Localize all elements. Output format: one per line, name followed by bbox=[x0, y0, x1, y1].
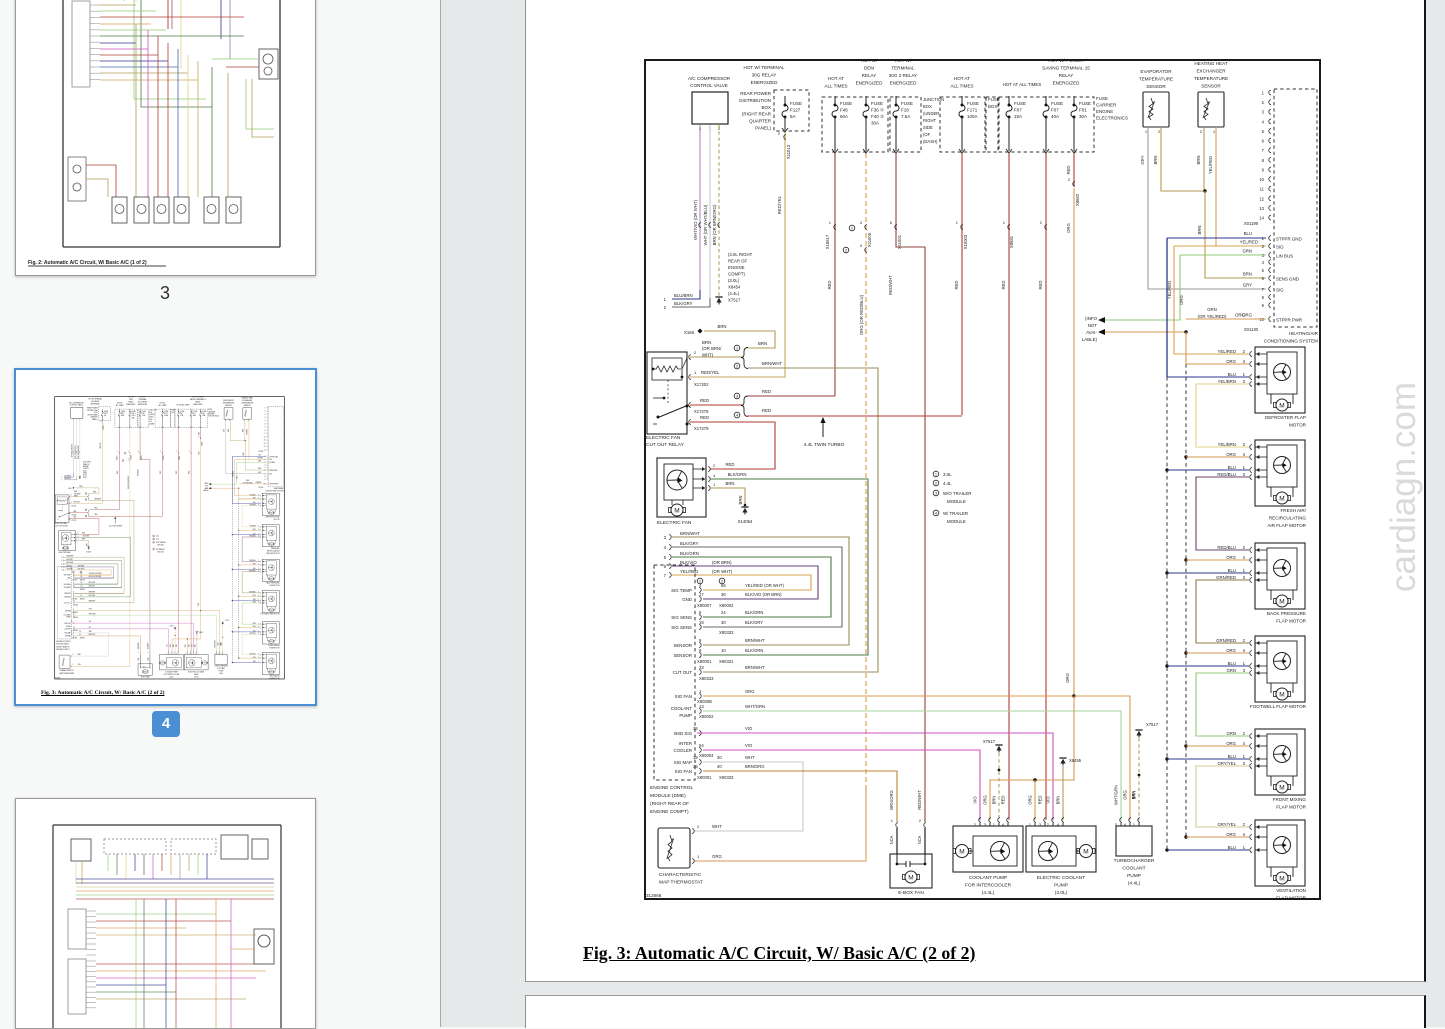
svg-text:(3.0L): (3.0L) bbox=[728, 278, 740, 283]
svg-text:FUSE: FUSE bbox=[840, 101, 852, 106]
svg-text:X8682: X8682 bbox=[1075, 193, 1080, 206]
rear power distribution box (dashed) with fuse F127 bbox=[774, 90, 809, 131]
svg-text:2: 2 bbox=[664, 305, 667, 310]
sidebar selected page badge 4 bbox=[152, 711, 180, 737]
svg-text:SIG MAP: SIG MAP bbox=[674, 760, 692, 765]
ECM row annotations bbox=[697, 578, 703, 584]
wire BLU stub to fresh air flap motor pin 1 bbox=[1165, 468, 1168, 471]
svg-text:2: 2 bbox=[1243, 545, 1246, 550]
svg-text:M: M bbox=[1279, 691, 1284, 698]
svg-text:GND: GND bbox=[682, 597, 692, 602]
svg-text:BRN: BRN bbox=[758, 341, 767, 346]
svg-text:ENGINE: ENGINE bbox=[1096, 109, 1113, 114]
svg-text:VIO: VIO bbox=[745, 726, 753, 731]
svg-text:BLU: BLU bbox=[1228, 754, 1236, 759]
svg-text:RED: RED bbox=[1001, 796, 1006, 805]
svg-text:W/ TRAILER: W/ TRAILER bbox=[943, 511, 968, 516]
svg-text:RED: RED bbox=[827, 280, 832, 289]
svg-text:SIG FAN: SIG FAN bbox=[675, 769, 692, 774]
ground X7517 for intercooler pump BRN bbox=[995, 744, 1002, 746]
svg-text:BLK/GRY: BLK/GRY bbox=[745, 620, 763, 625]
svg-text:ENGINE CONTROL: ENGINE CONTROL bbox=[650, 785, 694, 791]
schematic outer border frame bbox=[645, 60, 1320, 899]
svg-text:36: 36 bbox=[721, 592, 726, 597]
svg-text:BRN: BRN bbox=[725, 481, 734, 486]
svg-text:2: 2 bbox=[778, 131, 781, 136]
svg-text:SIG: SIG bbox=[1276, 287, 1284, 292]
svg-text:WHT/VIO (OR WHT): WHT/VIO (OR WHT) bbox=[693, 200, 698, 240]
wire BLU rail bbox=[1166, 238, 1168, 377]
svg-text:VENTILATION: VENTILATION bbox=[1276, 888, 1306, 893]
svg-text:BLU: BLU bbox=[1228, 465, 1236, 470]
svg-text:11: 11 bbox=[1260, 187, 1265, 192]
svg-text:SIG TEMP: SIG TEMP bbox=[671, 588, 692, 593]
intercooler pump connector pins bbox=[979, 818, 981, 823]
relay coil pin 2 split bbox=[690, 356, 743, 358]
svg-text:56: 56 bbox=[721, 583, 726, 588]
svg-text:2: 2 bbox=[1068, 177, 1071, 182]
svg-text:HOT W/: HOT W/ bbox=[895, 58, 912, 63]
svg-text:RED: RED bbox=[1066, 165, 1071, 174]
svg-text:ORG: ORG bbox=[1226, 359, 1236, 364]
svg-text:SENSOR: SENSOR bbox=[1201, 84, 1221, 89]
svg-text:ORG: ORG bbox=[1226, 741, 1236, 746]
svg-text:BLK/VIO (OR BRN): BLK/VIO (OR BRN) bbox=[745, 592, 782, 597]
A/C compressor control valve bbox=[692, 92, 728, 124]
svg-text:FUSE: FUSE bbox=[1014, 101, 1026, 106]
svg-text:2: 2 bbox=[1262, 100, 1265, 105]
svg-text:2: 2 bbox=[713, 463, 716, 468]
svg-text:30G RELAY: 30G RELAY bbox=[752, 73, 777, 78]
svg-text:1: 1 bbox=[1003, 220, 1006, 225]
svg-text:FUSE: FUSE bbox=[871, 101, 883, 106]
node row 2 BLK/GRY bbox=[672, 298, 710, 307]
svg-text:X80007: X80007 bbox=[697, 603, 712, 608]
svg-text:3: 3 bbox=[1243, 575, 1246, 580]
svg-text:4.4L: 4.4L bbox=[943, 481, 952, 486]
svg-text:2: 2 bbox=[919, 818, 922, 823]
fuse box: hot at all times / DEM relay (dashed) bbox=[822, 97, 888, 152]
svg-text:HOT AT: HOT AT bbox=[828, 76, 844, 81]
wire GRN (OR YEL/RED) LIN bus to pin 3 bbox=[1180, 254, 1266, 256]
wire ORG junction to pumps and turbo pump bbox=[1072, 694, 1075, 697]
svg-text:TURBOCHARGER: TURBOCHARGER bbox=[1114, 858, 1155, 864]
svg-text:RED/YEL: RED/YEL bbox=[701, 370, 720, 375]
svg-text:BRN/WHT: BRN/WHT bbox=[680, 531, 700, 536]
svg-text:7.5A: 7.5A bbox=[901, 114, 910, 119]
svg-text:7: 7 bbox=[664, 573, 667, 578]
svg-text:3: 3 bbox=[1243, 472, 1246, 477]
svg-text:ORG: ORG bbox=[1066, 222, 1071, 232]
wire BRN from X166 to relay coil bbox=[704, 331, 775, 348]
svg-text:ENERGIZED: ENERGIZED bbox=[751, 80, 778, 85]
wire ORG stub to fresh air flap motor pin 4 bbox=[1184, 455, 1187, 458]
svg-text:WHT/GRN: WHT/GRN bbox=[745, 704, 765, 709]
svg-text:BRN: BRN bbox=[992, 796, 997, 805]
ground X14054 bbox=[744, 504, 747, 507]
svg-text:COOLER: COOLER bbox=[673, 748, 692, 753]
svg-text:RED: RED bbox=[700, 415, 709, 420]
wire BRN/ORG ECM sig fan to e-box fan pin 1 bbox=[703, 771, 897, 822]
svg-text:INTER: INTER bbox=[679, 741, 692, 746]
svg-text:X01130: X01130 bbox=[1244, 327, 1259, 332]
option legend bbox=[933, 471, 939, 477]
svg-text:ELECTRIC FAN: ELECTRIC FAN bbox=[646, 435, 681, 441]
svg-text:X14054: X14054 bbox=[738, 519, 753, 524]
svg-text:(RIGHT REAR OF: (RIGHT REAR OF bbox=[650, 801, 689, 807]
svg-text:BLK/GRN: BLK/GRN bbox=[728, 472, 747, 477]
svg-text:SIG: SIG bbox=[1276, 244, 1284, 249]
svg-text:X8681: X8681 bbox=[1009, 235, 1014, 248]
svg-text:9: 9 bbox=[1262, 303, 1265, 308]
wire GRY from evaporator sensor to pin 7 SIG bbox=[1148, 127, 1266, 289]
svg-text:M: M bbox=[959, 848, 964, 855]
svg-text:33: 33 bbox=[699, 665, 704, 670]
wire GRN from previous flap motor pin 3 to pin 2 bbox=[1196, 673, 1249, 736]
svg-text:GRY/YEL: GRY/YEL bbox=[1217, 761, 1236, 766]
svg-text:BRN: BRN bbox=[1243, 272, 1252, 277]
svg-text:GRY/YEL: GRY/YEL bbox=[1217, 822, 1236, 827]
svg-text:YEL/BRN: YEL/BRN bbox=[1218, 379, 1236, 384]
svg-text:BLK/GRN: BLK/GRN bbox=[745, 648, 763, 653]
fuse box sliver (dashed) bbox=[986, 97, 998, 152]
svg-text:2: 2 bbox=[1040, 220, 1043, 225]
svg-text:FUSE: FUSE bbox=[1096, 96, 1108, 101]
svg-text:ORG: ORG bbox=[745, 689, 755, 694]
svg-text:BLU: BLU bbox=[1228, 661, 1236, 666]
svg-text:X8455: X8455 bbox=[1069, 758, 1082, 763]
svg-text:BLK/GRY: BLK/GRY bbox=[680, 541, 699, 546]
wire RED from fuse F171 down to RED(4) row bbox=[961, 153, 963, 415]
svg-text:WHT: WHT bbox=[712, 824, 722, 829]
svg-text:FOOTWELL FLAP MOTOR: FOOTWELL FLAP MOTOR bbox=[1250, 704, 1307, 709]
svg-text:FLAP MOTOR: FLAP MOTOR bbox=[1276, 896, 1306, 901]
svg-text:4: 4 bbox=[1262, 260, 1265, 265]
sidebar: thumbnail page 4 (selected, mini copy of main diagram) bbox=[14, 368, 317, 706]
svg-text:4: 4 bbox=[1243, 452, 1246, 457]
svg-text:Fig. 2: Automatic A/C Circuit,: Fig. 2: Automatic A/C Circuit, W/ Basic … bbox=[28, 260, 147, 266]
svg-text:6: 6 bbox=[699, 610, 702, 615]
svg-text:RED: RED bbox=[725, 462, 734, 467]
wire VIO ECM bsd sig to electric coolant pump pin 2 bbox=[697, 733, 1053, 820]
e-box fan connector NCA pins bbox=[896, 823, 898, 828]
svg-text:5A: 5A bbox=[790, 114, 796, 119]
svg-text:BRN/ORG: BRN/ORG bbox=[889, 790, 894, 810]
svg-text:35: 35 bbox=[693, 726, 698, 731]
svg-text:3: 3 bbox=[1243, 761, 1246, 766]
svg-text:BLK/GRN: BLK/GRN bbox=[745, 610, 763, 615]
svg-text:GRN/RED: GRN/RED bbox=[1216, 638, 1236, 643]
svg-text:(INFO: (INFO bbox=[1085, 316, 1098, 321]
svg-text:ORG: ORG bbox=[1123, 790, 1128, 800]
svg-text:9: 9 bbox=[699, 638, 702, 643]
svg-text:RIGHT: RIGHT bbox=[923, 118, 936, 123]
svg-text:3.0L: 3.0L bbox=[943, 472, 952, 477]
wire RED from fuse F07 40A to electric coolant pump pin 3 bbox=[1045, 153, 1047, 820]
wire BRN from electric fan pin 1 to ground X14054 bbox=[710, 488, 745, 505]
svg-text:NOT: NOT bbox=[1088, 323, 1098, 328]
svg-text:HEATING/AIR: HEATING/AIR bbox=[1289, 331, 1319, 336]
svg-text:GRY: GRY bbox=[1140, 155, 1145, 164]
svg-text:LIN BUS: LIN BUS bbox=[1276, 253, 1293, 258]
svg-text:NCA: NCA bbox=[917, 835, 922, 844]
wire WHT ECM sig map loop to thermostat pin 2 bbox=[694, 762, 803, 831]
svg-text:X80333: X80333 bbox=[719, 775, 734, 780]
svg-text:2: 2 bbox=[1158, 129, 1161, 134]
svg-text:1: 1 bbox=[697, 854, 700, 859]
svg-text:X80002: X80002 bbox=[719, 603, 734, 608]
svg-text:STPPR GND: STPPR GND bbox=[1276, 236, 1302, 241]
svg-text:ELECTRONICS: ELECTRONICS bbox=[1096, 116, 1128, 121]
svg-text:TEMPERATURE: TEMPERATURE bbox=[1139, 77, 1173, 82]
svg-text:100A: 100A bbox=[967, 114, 978, 119]
wire BLK/GRN ECM sig sens loop bbox=[703, 616, 831, 618]
svg-text:X80331: X80331 bbox=[719, 659, 734, 664]
svg-text:FUSE: FUSE bbox=[1051, 101, 1063, 106]
svg-text:312666: 312666 bbox=[646, 893, 662, 898]
svg-text:YEL/RED: YEL/RED bbox=[1240, 240, 1258, 245]
svg-text:FUSE: FUSE bbox=[790, 101, 802, 106]
svg-text:3: 3 bbox=[1262, 110, 1265, 115]
svg-text:1: 1 bbox=[1243, 661, 1246, 666]
svg-text:RED: RED bbox=[1001, 280, 1006, 289]
svg-text:30: 30 bbox=[721, 620, 726, 625]
svg-text:BRN/WHT: BRN/WHT bbox=[745, 638, 765, 643]
svg-text:SIG SENS: SIG SENS bbox=[671, 625, 692, 630]
svg-text:YEL/RED: YEL/RED bbox=[1218, 349, 1236, 354]
svg-text:2: 2 bbox=[1243, 822, 1246, 827]
wire BRN/WHT ECM sensor loop bbox=[703, 644, 849, 646]
svg-text:FLAP MOTOR: FLAP MOTOR bbox=[1276, 805, 1306, 810]
svg-text:NCA: NCA bbox=[889, 835, 894, 844]
wire ORG stub to front mixing flap motor pin 4 bbox=[1184, 744, 1187, 747]
sidebar: thumbnail page 5 (partial, top of next figure) bbox=[15, 798, 316, 1029]
svg-text:BLU: BLU bbox=[1228, 568, 1236, 573]
svg-text:DISTRIBUTION: DISTRIBUTION bbox=[739, 98, 771, 103]
dashed continuation of ORG rail bbox=[1185, 364, 1187, 839]
wire YEL/BRN from previous flap motor pin 3 to pin 2 bbox=[1196, 384, 1249, 447]
svg-text:RELAY: RELAY bbox=[862, 73, 877, 78]
svg-text:F07: F07 bbox=[1051, 108, 1059, 113]
svg-text:M: M bbox=[908, 874, 913, 881]
svg-text:M: M bbox=[674, 507, 679, 514]
svg-text:3: 3 bbox=[860, 243, 863, 248]
flap motor: defroster bbox=[1218, 347, 1307, 428]
svg-text:RED: RED bbox=[1038, 280, 1043, 289]
svg-text:6: 6 bbox=[664, 564, 667, 569]
electric coolant pump bbox=[1026, 826, 1096, 872]
svg-text:PUMP: PUMP bbox=[679, 713, 692, 718]
svg-text:1: 1 bbox=[829, 220, 832, 225]
svg-text:RED/WHT: RED/WHT bbox=[888, 275, 893, 295]
svg-text:BSD SIG: BSD SIG bbox=[674, 731, 692, 736]
svg-text:YEL/RED: YEL/RED bbox=[680, 569, 698, 574]
turbo pump connector pins bbox=[1120, 818, 1122, 823]
wire GRY/YEL from previous flap motor pin 3 to pin 2 bbox=[1196, 766, 1249, 827]
svg-text:REAR POWER: REAR POWER bbox=[740, 91, 772, 96]
svg-text:ENERGIZED: ENERGIZED bbox=[890, 81, 917, 86]
svg-text:MAP THERMOSTAT: MAP THERMOSTAT bbox=[659, 880, 703, 886]
svg-text:X7517: X7517 bbox=[1146, 722, 1159, 727]
svg-text:EXCHANGER: EXCHANGER bbox=[1196, 69, 1226, 74]
wire GRN/RED from previous flap motor pin 3 to pin 2 bbox=[1196, 580, 1249, 643]
svg-text:HOT W/ TERMINAL: HOT W/ TERMINAL bbox=[744, 65, 785, 70]
wire RED then ORG from fuse F01 via X8682 bbox=[1073, 153, 1075, 186]
svg-text:1: 1 bbox=[1243, 568, 1246, 573]
svg-text:ORG: ORG bbox=[1226, 555, 1236, 560]
wire RED from fuse F07 15A to intercooler pump pin 4 bbox=[1008, 153, 1010, 820]
sidebar: thumbnail page 3 (partial, bottom half of Fig.2 page) bbox=[15, 0, 316, 276]
svg-text:MOTOR: MOTOR bbox=[1289, 423, 1307, 428]
svg-text:F07: F07 bbox=[1014, 108, 1022, 113]
svg-text:19: 19 bbox=[699, 620, 704, 625]
wire BLK/GRN from electric fan pin 4 to ECM SENSOR bbox=[703, 479, 868, 655]
svg-text:RED/BLU: RED/BLU bbox=[1217, 545, 1236, 550]
wire BRN/WHT option row 3 bbox=[672, 537, 849, 645]
svg-text:2: 2 bbox=[1243, 731, 1246, 736]
svg-text:SAVING TERMINAL 15: SAVING TERMINAL 15 bbox=[1042, 66, 1090, 71]
svg-text:FRONT MIXING: FRONT MIXING bbox=[1273, 797, 1307, 802]
svg-text:YEL/RED: YEL/RED bbox=[1167, 281, 1172, 299]
electric coolant pump connector pins bbox=[1034, 818, 1036, 823]
heating heat exchanger temperature sensor bbox=[1198, 92, 1224, 127]
wire ORG (OR RED/BLU) dashed from fuse F36/F40 to thermostat bbox=[865, 153, 867, 790]
svg-text:4: 4 bbox=[1243, 648, 1246, 653]
svg-text:HOT AT: HOT AT bbox=[954, 76, 970, 81]
svg-text:VIO: VIO bbox=[745, 743, 753, 748]
svg-text:BRN/WHT: BRN/WHT bbox=[745, 665, 765, 670]
svg-text:SIDE: SIDE bbox=[923, 125, 933, 130]
svg-text:F01: F01 bbox=[1079, 108, 1087, 113]
svg-text:SIG FAN: SIG FAN bbox=[675, 694, 692, 699]
svg-text:BRN: BRN bbox=[1153, 155, 1158, 164]
svg-text:ORG: ORG bbox=[1226, 832, 1236, 837]
svg-text:HOT W/: HOT W/ bbox=[861, 58, 878, 63]
svg-text:BRN/ORG: BRN/ORG bbox=[745, 764, 765, 769]
wire ORG rail bbox=[1186, 332, 1249, 364]
svg-text:(DASH): (DASH) bbox=[923, 139, 938, 144]
svg-text:AVAI-: AVAI- bbox=[1086, 330, 1097, 335]
svg-text:BLU: BLU bbox=[1244, 231, 1252, 236]
svg-text:SENS GND: SENS GND bbox=[1276, 276, 1299, 281]
svg-text:1: 1 bbox=[1213, 129, 1216, 134]
svg-text:FOR INTERCOOLER: FOR INTERCOOLER bbox=[965, 883, 1012, 889]
svg-text:60A: 60A bbox=[840, 114, 848, 119]
svg-text:RED/WHT: RED/WHT bbox=[917, 790, 922, 810]
svg-text:(OR BRN/: (OR BRN/ bbox=[702, 346, 722, 351]
ground X7517 (compressor valve) bbox=[715, 296, 722, 298]
svg-text:ALL TIMES: ALL TIMES bbox=[824, 84, 847, 89]
svg-text:ELECTRIC FAN: ELECTRIC FAN bbox=[657, 520, 692, 526]
svg-text:(OR YEL/RED): (OR YEL/RED) bbox=[1198, 314, 1227, 319]
svg-text:F46: F46 bbox=[840, 108, 848, 113]
svg-text:CONTROL VALVE: CONTROL VALVE bbox=[690, 83, 728, 88]
svg-text:BRN: BRN bbox=[1056, 796, 1061, 805]
svg-text:X18617: X18617 bbox=[825, 234, 830, 249]
svg-text:ORG: ORG bbox=[1065, 672, 1070, 682]
fuse carrier engine electronics (dashed) F07 F07 F01 bbox=[999, 97, 1094, 152]
svg-text:A/C COMPRESSOR: A/C COMPRESSOR bbox=[688, 76, 731, 81]
svg-text:54: 54 bbox=[699, 743, 704, 748]
svg-text:RED: RED bbox=[700, 398, 709, 403]
svg-text:GRN: GRN bbox=[1242, 249, 1252, 254]
svg-text:E-BOX FAN: E-BOX FAN bbox=[898, 890, 924, 896]
svg-text:(3.0L): (3.0L) bbox=[1055, 890, 1068, 896]
svg-text:X80333: X80333 bbox=[719, 630, 734, 635]
fuse box (dashed) with fuse F171 bbox=[940, 97, 985, 152]
ground X8455 for electric pump BRN bbox=[1059, 757, 1066, 759]
svg-text:M: M bbox=[1279, 784, 1284, 791]
svg-text:M: M bbox=[1279, 875, 1284, 882]
svg-text:X8454: X8454 bbox=[728, 285, 741, 290]
wire BLU stub to footwell flap motor pin 1 bbox=[1165, 664, 1168, 667]
svg-text:30A: 30A bbox=[871, 121, 879, 126]
svg-text:FUSE: FUSE bbox=[967, 101, 979, 106]
svg-text:40A: 40A bbox=[1051, 114, 1059, 119]
svg-text:X80004: X80004 bbox=[699, 753, 714, 758]
svg-text:X80002: X80002 bbox=[699, 714, 714, 719]
svg-text:GRN: GRN bbox=[1226, 668, 1236, 673]
svg-text:ORG: ORG bbox=[1235, 313, 1245, 318]
svg-text:8: 8 bbox=[699, 648, 702, 653]
svg-text:F40 ②: F40 ② bbox=[871, 114, 885, 119]
svg-text:EVAPORATOR: EVAPORATOR bbox=[1140, 69, 1172, 74]
svg-text:WHT/GRN: WHT/GRN bbox=[1114, 785, 1119, 805]
relay output X17278 RED split 3/4 bbox=[690, 404, 743, 406]
svg-text:1: 1 bbox=[1262, 91, 1265, 96]
svg-text:2: 2 bbox=[1243, 638, 1246, 643]
dashed continuation of BLU rail bbox=[1166, 377, 1168, 848]
svg-text:4: 4 bbox=[1243, 832, 1246, 837]
svg-text:F127: F127 bbox=[790, 108, 801, 113]
svg-text:BRN/WHT: BRN/WHT bbox=[762, 361, 782, 366]
svg-text:MODULE: MODULE bbox=[947, 499, 966, 504]
svg-text:BRN: BRN bbox=[702, 340, 711, 345]
svg-text:JUNCTION: JUNCTION bbox=[923, 97, 944, 102]
svg-text:X166: X166 bbox=[684, 330, 695, 335]
flap motor: back pressure bbox=[1216, 543, 1307, 624]
svg-text:VIO: VIO bbox=[1046, 796, 1051, 804]
svg-text:13: 13 bbox=[699, 704, 704, 709]
svg-text:X11001: X11001 bbox=[897, 234, 902, 249]
svg-text:F18: F18 bbox=[901, 108, 909, 113]
svg-text:RED/YEL: RED/YEL bbox=[777, 195, 782, 214]
svg-text:RED: RED bbox=[762, 408, 771, 413]
svg-text:2: 2 bbox=[1200, 129, 1203, 134]
svg-text:GRN: GRN bbox=[1226, 731, 1236, 736]
svg-text:LABLE): LABLE) bbox=[1082, 337, 1098, 342]
svg-text:M: M bbox=[1279, 402, 1284, 409]
svg-text:WHT (OR WHT/BLU): WHT (OR WHT/BLU) bbox=[703, 204, 708, 245]
svg-text:COOLANT PUMP: COOLANT PUMP bbox=[969, 875, 1007, 881]
svg-text:CUT OUT: CUT OUT bbox=[673, 670, 693, 675]
svg-text:QUARTER: QUARTER bbox=[749, 119, 772, 124]
svg-text:BACK PRESSURE: BACK PRESSURE bbox=[1267, 611, 1306, 616]
svg-text:BRN: BRN bbox=[717, 324, 726, 329]
svg-text:19: 19 bbox=[693, 755, 698, 760]
svg-text:COOLANT: COOLANT bbox=[1122, 866, 1145, 872]
svg-text:AIR FLAP MOTOR: AIR FLAP MOTOR bbox=[1267, 523, 1306, 528]
svg-text:30A: 30A bbox=[1079, 114, 1087, 119]
wire YEL/RED from heat exchanger sensor to pin 2 SIG bbox=[1215, 127, 1217, 246]
svg-text:1: 1 bbox=[694, 370, 697, 375]
wire YEL/RED rail to defroster pin 2 bbox=[1174, 246, 1249, 354]
svg-text:ORG: ORG bbox=[983, 795, 988, 805]
svg-text:8: 8 bbox=[1262, 158, 1265, 163]
svg-text:X11013: X11013 bbox=[786, 144, 791, 159]
svg-text:X10003: X10003 bbox=[963, 234, 968, 249]
svg-text:3: 3 bbox=[1243, 668, 1246, 673]
